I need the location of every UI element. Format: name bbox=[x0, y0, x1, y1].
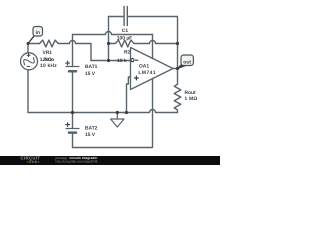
ground symbol bbox=[111, 113, 124, 128]
rail V+ from BAT1 with hop over N1 bbox=[73, 32, 153, 35]
battery BAT2 chain wire bbox=[72, 113, 74, 148]
wire input junction to R1 bbox=[28, 43, 40, 45]
svg-text:C1: C1 bbox=[122, 28, 129, 34]
op-amp input polarity markers bbox=[27, 53, 139, 127]
footer logo bolt bbox=[30, 160, 31, 162]
footer watermark bar bbox=[0, 156, 220, 165]
wire inverting row bbox=[91, 60, 131, 62]
svg-text:in: in bbox=[36, 30, 40, 36]
svg-text:out: out bbox=[183, 59, 191, 65]
svg-text:10 kHz: 10 kHz bbox=[40, 63, 57, 69]
battery BAT1 wires bbox=[72, 35, 74, 113]
node dot non-inverting / ground rail bbox=[125, 111, 128, 114]
capacitor C1 bbox=[124, 7, 127, 26]
VR1 plus marker bbox=[27, 53, 31, 57]
wire C1 rail left bbox=[109, 16, 124, 18]
op-amp U1 triangle bbox=[131, 48, 174, 90]
svg-text:1 MΩ: 1 MΩ bbox=[185, 96, 198, 102]
non-inverting input wire bbox=[127, 77, 131, 113]
marker minus bbox=[135, 59, 138, 61]
output vertical bbox=[177, 44, 179, 85]
svg-text:http://circuitlab.com/c/qjs324: http://circuitlab.com/c/qjs3245 bbox=[56, 160, 98, 164]
svg-text:2kΩo: 2kΩo bbox=[43, 57, 54, 63]
node dot N1-inverting bbox=[107, 59, 110, 62]
junction dots bbox=[27, 42, 180, 114]
node dot BAT chain / ground rail bbox=[71, 111, 74, 114]
BAT2 plus marker bbox=[65, 122, 70, 127]
svg-text:15 V: 15 V bbox=[85, 132, 96, 138]
svg-text:≡LAB≡: ≡LAB≡ bbox=[27, 160, 40, 164]
resistor R1 bbox=[40, 40, 59, 47]
node dot in/VR1 bbox=[27, 42, 30, 45]
V+ stub into op-amp bbox=[152, 35, 154, 59]
label in box bbox=[33, 27, 43, 37]
ground rail with hop over V- stub bbox=[28, 110, 178, 113]
svg-text:Rout: Rout bbox=[185, 90, 197, 96]
battery BAT1 plates bbox=[66, 66, 79, 68]
resistor R2 rail with zigzag and hop over V+ stub bbox=[109, 40, 178, 47]
svg-text:BAT2: BAT2 bbox=[85, 126, 98, 132]
marker plus bbox=[134, 76, 139, 81]
battery BAT2 plates bbox=[66, 128, 79, 130]
VR1 minus marker bbox=[27, 65, 30, 67]
wire C1 rail right bbox=[128, 17, 178, 44]
op-amp output wire to node bbox=[173, 68, 178, 70]
source VR1 sine bbox=[22, 54, 36, 68]
svg-text:100 µF: 100 µF bbox=[117, 35, 132, 41]
resistor Rout bbox=[174, 84, 181, 113]
svg-text:10 k: 10 k bbox=[117, 58, 127, 64]
source VR1 bottom wire bbox=[27, 70, 29, 113]
svg-text:LM741: LM741 bbox=[138, 70, 156, 76]
wire R1 to corner with hop over BAT1 wire bbox=[58, 41, 91, 61]
node dot R2-output bbox=[176, 42, 179, 45]
BAT1 plus marker bbox=[65, 61, 70, 66]
R2 value omega glyph at pin bbox=[131, 61, 134, 63]
svg-text:VR1: VR1 bbox=[43, 50, 53, 56]
component labels bbox=[40, 28, 198, 138]
svg-text:OA1: OA1 bbox=[139, 63, 149, 69]
node dot N1-R2 bbox=[107, 42, 110, 45]
source VR1 top wire bbox=[27, 44, 29, 53]
node dot ground stem bbox=[116, 111, 119, 114]
node dot output bbox=[176, 67, 179, 70]
svg-text:R2: R2 bbox=[124, 50, 131, 56]
source VR1 circle bbox=[21, 53, 38, 70]
svg-text:BAT1: BAT1 bbox=[85, 64, 98, 70]
negative rail bottom bbox=[73, 79, 153, 148]
svg-text:15 V: 15 V bbox=[85, 71, 96, 77]
out tail bbox=[178, 64, 186, 69]
label out box bbox=[178, 55, 194, 69]
node in tail bbox=[28, 34, 36, 44]
node N1 vertical bbox=[108, 17, 110, 61]
